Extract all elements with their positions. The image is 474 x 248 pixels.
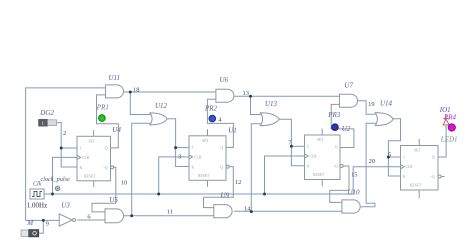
svg-text:clock_pulse: clock_pulse bbox=[41, 176, 70, 183]
svg-text:RESET: RESET bbox=[84, 175, 96, 179]
svg-text:9: 9 bbox=[46, 221, 49, 228]
svg-text:U11: U11 bbox=[109, 74, 121, 82]
svg-text:PR3: PR3 bbox=[327, 111, 341, 119]
svg-text:K: K bbox=[80, 166, 83, 170]
svg-text:PR2: PR2 bbox=[204, 104, 218, 112]
svg-text:11: 11 bbox=[167, 209, 173, 216]
svg-text:U4: U4 bbox=[112, 126, 121, 134]
svg-text:U2: U2 bbox=[342, 125, 351, 133]
svg-text:~Q: ~Q bbox=[219, 166, 224, 170]
svg-text:U5: U5 bbox=[109, 196, 118, 204]
svg-text:2: 2 bbox=[63, 130, 66, 137]
svg-text:RESET: RESET bbox=[410, 184, 422, 188]
svg-text:DG2: DG2 bbox=[39, 109, 54, 117]
svg-text:5: 5 bbox=[388, 151, 391, 158]
svg-text:RESET: RESET bbox=[313, 173, 325, 177]
svg-text:CLR: CLR bbox=[194, 156, 202, 160]
svg-text:SET: SET bbox=[89, 140, 96, 144]
svg-text:U3: U3 bbox=[61, 201, 70, 209]
svg-text:~Q: ~Q bbox=[430, 175, 435, 179]
svg-text:U10: U10 bbox=[348, 188, 361, 196]
svg-text:RESET: RESET bbox=[198, 174, 210, 178]
svg-text:15: 15 bbox=[351, 172, 358, 179]
svg-text:U6: U6 bbox=[220, 76, 229, 84]
svg-text:K: K bbox=[192, 166, 195, 170]
svg-text:SET: SET bbox=[202, 139, 209, 143]
svg-text:SET: SET bbox=[317, 138, 324, 142]
svg-text:Q: Q bbox=[432, 156, 435, 160]
svg-text:CLR: CLR bbox=[310, 155, 318, 159]
svg-text:PR4: PR4 bbox=[443, 113, 457, 121]
svg-text:~Q: ~Q bbox=[333, 165, 338, 169]
svg-text:3: 3 bbox=[178, 153, 181, 160]
svg-text:U9: U9 bbox=[221, 192, 230, 200]
svg-text:14: 14 bbox=[244, 206, 251, 213]
svg-text:LED1: LED1 bbox=[440, 135, 458, 143]
svg-text:U14: U14 bbox=[380, 100, 393, 108]
svg-text:4: 4 bbox=[218, 117, 222, 124]
svg-text:U12: U12 bbox=[155, 102, 168, 110]
svg-text:Q: Q bbox=[105, 147, 108, 151]
svg-text:18: 18 bbox=[133, 87, 140, 94]
svg-text:20: 20 bbox=[369, 158, 376, 165]
svg-text:13: 13 bbox=[243, 90, 250, 97]
svg-text:CLR: CLR bbox=[406, 165, 414, 169]
svg-text:U13: U13 bbox=[265, 100, 278, 108]
svg-text:U7: U7 bbox=[344, 82, 353, 90]
svg-text:12: 12 bbox=[235, 179, 242, 186]
svg-text:PR1: PR1 bbox=[96, 103, 109, 111]
svg-text:M: M bbox=[26, 219, 34, 227]
svg-text:Q: Q bbox=[335, 145, 338, 149]
svg-text:U1: U1 bbox=[228, 126, 237, 134]
svg-text:~Q: ~Q bbox=[103, 166, 108, 170]
svg-text:6: 6 bbox=[87, 213, 91, 220]
svg-text:1.00Hz: 1.00Hz bbox=[27, 202, 47, 210]
svg-text:K: K bbox=[403, 175, 406, 179]
svg-text:Q: Q bbox=[221, 146, 224, 150]
svg-text:10: 10 bbox=[121, 179, 128, 186]
svg-text:SET: SET bbox=[414, 149, 421, 153]
svg-text:K: K bbox=[307, 165, 310, 169]
svg-text:19: 19 bbox=[368, 101, 375, 108]
svg-text:CLR: CLR bbox=[82, 156, 90, 160]
